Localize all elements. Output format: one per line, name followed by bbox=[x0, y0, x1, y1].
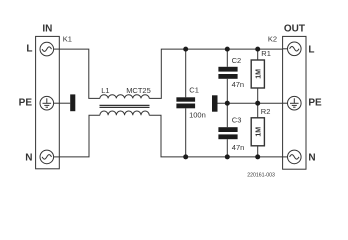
svg-text:L: L bbox=[308, 44, 314, 55]
inductor L1 winding a (top) bbox=[100, 95, 149, 99]
svg-text:N: N bbox=[308, 152, 315, 163]
svg-text:C3: C3 bbox=[232, 115, 242, 124]
capacitor C3 branch wires bbox=[226, 103, 228, 157]
junction node PE-C2C3 bbox=[225, 101, 230, 106]
inductor L1 winding b (bottom) bbox=[100, 111, 149, 115]
K2 pin PE earth symbol bbox=[283, 96, 302, 110]
svg-text:OUT: OUT bbox=[284, 24, 305, 35]
svg-text:PE: PE bbox=[308, 98, 322, 109]
svg-text:100n: 100n bbox=[189, 111, 206, 120]
capacitor C1 plates bbox=[176, 97, 195, 108]
K2 pin N source symbol bbox=[283, 150, 302, 164]
capacitor C3 plates bbox=[218, 127, 237, 139]
K1 pin PE earth symbol bbox=[40, 96, 59, 110]
PE faston tab middle bbox=[212, 95, 218, 111]
svg-text:L: L bbox=[26, 44, 32, 55]
svg-text:MCT25: MCT25 bbox=[126, 86, 151, 95]
junction node N-R2 bbox=[255, 154, 260, 159]
K2 pin L source symbol bbox=[283, 42, 302, 56]
svg-text:R1: R1 bbox=[261, 49, 271, 58]
K1 pin L source symbol bbox=[40, 42, 59, 56]
junction node PE-R1R2 bbox=[255, 101, 260, 106]
wire L from K1 to L1 bbox=[59, 49, 100, 98]
svg-text:L1: L1 bbox=[101, 86, 109, 95]
svg-text:K1: K1 bbox=[63, 35, 72, 44]
junction node L-R1 bbox=[255, 47, 260, 52]
capacitor C1 branch wires bbox=[185, 49, 187, 157]
inductor L1 core bbox=[100, 105, 150, 107]
wire PE from K1 to tab bbox=[59, 102, 70, 104]
svg-text:47n: 47n bbox=[232, 80, 245, 89]
capacitor C2 plates bbox=[218, 67, 237, 79]
svg-text:220161-003: 220161-003 bbox=[247, 173, 275, 179]
wire L from L1 to K2 bbox=[149, 49, 282, 98]
svg-text:C1: C1 bbox=[189, 85, 199, 94]
svg-text:1M: 1M bbox=[256, 127, 263, 137]
resistor R1 branch wires bbox=[257, 49, 259, 103]
svg-text:PE: PE bbox=[19, 98, 33, 109]
junction node N-C3 bbox=[225, 154, 230, 159]
capacitor C2 branch wires bbox=[226, 49, 228, 103]
resistor R2 branch wires bbox=[257, 103, 259, 157]
connector K2 body bbox=[283, 36, 306, 169]
svg-text:K2: K2 bbox=[268, 35, 277, 44]
junction node L-C1 bbox=[183, 47, 188, 52]
connector K1 body bbox=[36, 36, 60, 168]
resistor R1 body bbox=[251, 60, 264, 88]
svg-text:1M: 1M bbox=[256, 69, 263, 79]
PE faston tab left bbox=[70, 94, 75, 111]
wire N from L1 to K2 bbox=[149, 115, 282, 157]
junction node L-C2 bbox=[225, 47, 230, 52]
svg-text:N: N bbox=[25, 152, 32, 163]
junction node N-C1 bbox=[183, 154, 188, 159]
svg-text:C2: C2 bbox=[232, 56, 242, 65]
svg-text:R2: R2 bbox=[261, 107, 271, 116]
resistor R2 body bbox=[251, 118, 264, 146]
svg-text:IN: IN bbox=[42, 24, 52, 35]
wire N from K1 to L1 bbox=[59, 115, 100, 157]
K1 pin N source symbol bbox=[40, 150, 59, 164]
svg-text:47n: 47n bbox=[232, 143, 245, 152]
wire PE from tab to K2 bbox=[218, 102, 283, 104]
